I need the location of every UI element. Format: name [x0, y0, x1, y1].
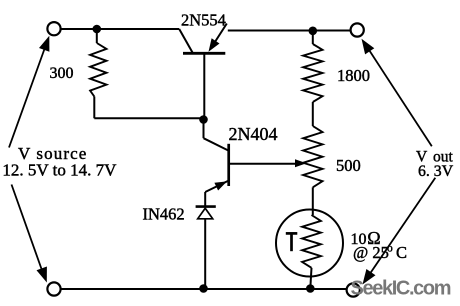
svg-text:@ 25: @ 25	[353, 243, 389, 262]
svg-text:o: o	[387, 243, 393, 255]
svg-text:IN462: IN462	[143, 205, 185, 224]
svg-text:1800: 1800	[337, 66, 370, 85]
svg-text:2N404: 2N404	[229, 124, 278, 144]
svg-text:C: C	[396, 243, 407, 262]
svg-text:500: 500	[336, 156, 361, 175]
svg-text:2N554: 2N554	[181, 11, 226, 30]
svg-text:12. 5V to 14. 7V: 12. 5V to 14. 7V	[2, 161, 117, 180]
svg-text:SeekIC.com: SeekIC.com	[351, 278, 452, 300]
svg-text:6. 3V: 6. 3V	[418, 163, 454, 180]
svg-text:300: 300	[50, 65, 74, 82]
